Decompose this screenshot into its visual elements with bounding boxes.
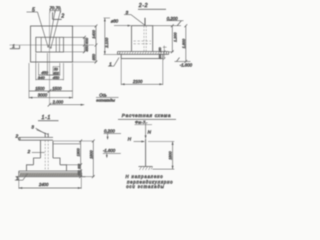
label 2 upper xyxy=(15,133,21,139)
svg-text:1-1: 1-1 xyxy=(42,115,51,121)
dim row B 340 | 450 xyxy=(36,53,64,80)
svg-text:1500: 1500 xyxy=(35,86,45,91)
svg-text:0.200: 0.200 xyxy=(104,129,115,134)
slab top lines xyxy=(19,170,82,172)
dim 2100 (2-2) xyxy=(121,59,163,86)
pedestal divider line left xyxy=(40,37,42,52)
scheme dim 1800 xyxy=(148,142,174,170)
svg-text:1800: 1800 xyxy=(169,150,173,159)
dim 2400 (1-1) xyxy=(19,178,82,190)
level 0.200 (scheme) xyxy=(104,129,121,140)
right inner dim 1.200 xyxy=(169,24,178,53)
step 1 xyxy=(34,158,61,165)
svg-text:3000: 3000 xyxy=(38,93,48,98)
scheme ground xyxy=(139,167,153,171)
svg-text:450: 450 xyxy=(85,44,89,51)
svg-text:850: 850 xyxy=(92,53,96,60)
svg-text:-1.600: -1.600 xyxy=(180,62,193,67)
label 2 lower with leader xyxy=(27,149,45,154)
svg-text:эстакады: эстакады xyxy=(96,98,115,103)
svg-text:2: 2 xyxy=(60,14,64,20)
note text H направлено... xyxy=(126,174,174,189)
svg-text:2: 2 xyxy=(15,133,19,138)
dim row A extension lines xyxy=(39,53,60,76)
svg-text:1300: 1300 xyxy=(77,148,81,156)
pedestal outline (plan inner rectangle) xyxy=(36,37,64,52)
svg-text:300: 300 xyxy=(158,54,162,59)
label 1 (2-2) xyxy=(108,58,119,67)
dim row E 2.000 to trestle axis xyxy=(48,100,85,107)
title Расчетная схема xyxy=(118,113,176,124)
svg-text:0.200: 0.200 xyxy=(167,16,178,21)
ledge plate (wide thin slab top) xyxy=(118,52,169,55)
svg-text:1500: 1500 xyxy=(52,86,62,91)
dimension 70|70 top xyxy=(48,6,61,49)
svg-text:400: 400 xyxy=(85,37,89,44)
svg-text:70: 70 xyxy=(50,6,55,11)
dim row C 1500 | 1500 xyxy=(29,63,73,98)
svg-text:450: 450 xyxy=(53,75,60,80)
svg-text:340: 340 xyxy=(38,75,45,80)
svg-text:2: 2 xyxy=(27,149,31,154)
svg-text:1.200: 1.200 xyxy=(173,32,177,42)
title 2-2 xyxy=(138,3,166,9)
right outer dim 1.800 xyxy=(182,24,187,63)
label 3 leaders (1-1) xyxy=(31,125,48,135)
trestle axis label xyxy=(96,92,119,102)
label 3 leader xyxy=(124,10,144,25)
svg-text:⌀30: ⌀30 xyxy=(111,19,119,24)
svg-text:1400: 1400 xyxy=(92,29,96,38)
anchor bolt above column top xyxy=(144,18,146,26)
svg-text:300: 300 xyxy=(77,164,81,169)
svg-text:оси эстакады: оси эстакады xyxy=(126,184,164,189)
right extension lines (1-1) xyxy=(53,141,94,177)
column outline xyxy=(132,26,153,52)
anchor bolts hidden dashed xyxy=(44,140,46,170)
section cut mark 1 (left) xyxy=(10,44,20,49)
section cut mark 2 (top) xyxy=(53,12,65,19)
svg-text:-1.600: -1.600 xyxy=(103,148,116,153)
scheme column line xyxy=(145,139,147,167)
svg-text:2400: 2400 xyxy=(38,182,49,187)
vertical centerline xyxy=(49,13,51,106)
ground line (1-1) xyxy=(16,176,86,178)
anchor plate hidden (dashed) xyxy=(134,40,152,42)
plan right outer dim chain 1400/850 xyxy=(73,25,98,64)
horizontal centerline xyxy=(10,44,95,46)
level mark 0.200 xyxy=(153,16,184,26)
left dim 2.100 xyxy=(104,18,119,55)
foundation slab outline (plan outer rectangle) xyxy=(31,26,73,62)
label 5 leader xyxy=(27,7,49,47)
svg-text:1800: 1800 xyxy=(89,149,93,158)
svg-text:2100: 2100 xyxy=(132,79,143,84)
level -1.600 (scheme) xyxy=(103,148,121,158)
anchor bolt hidden (dashed) xyxy=(143,26,145,51)
svg-text:1.800: 1.800 xyxy=(182,38,186,48)
dim row D 3000 xyxy=(29,93,73,99)
force N arrow xyxy=(144,123,152,139)
label d30 with arrow xyxy=(111,19,131,27)
anchor bolts above plate xyxy=(44,133,46,138)
svg-text:450: 450 xyxy=(77,170,81,175)
inner dim chain (1-1) xyxy=(77,140,83,179)
step 2 xyxy=(27,165,67,171)
svg-text:Расчетная схема: Расчетная схема xyxy=(122,113,171,119)
title 1-1 xyxy=(38,115,59,121)
outer dim chain 1800 (1-1) xyxy=(89,140,94,179)
svg-text:3: 3 xyxy=(31,125,34,130)
svg-text:70: 70 xyxy=(56,6,61,11)
column sides xyxy=(40,140,42,158)
svg-text:1: 1 xyxy=(12,44,15,49)
pedestal divider line right xyxy=(55,37,57,52)
slab body xyxy=(121,54,163,58)
svg-text:5: 5 xyxy=(32,7,35,13)
svg-text:2-2: 2-2 xyxy=(138,3,148,9)
svg-text:Н направлено: Н направлено xyxy=(126,174,164,179)
baseplate / traverse xyxy=(19,137,53,140)
level mark -1.600 (2-2) xyxy=(175,58,193,68)
small right-edge dims of slab (2-2) xyxy=(158,46,166,60)
svg-text:3: 3 xyxy=(126,10,129,15)
force H arrow xyxy=(128,136,145,142)
svg-text:2.100: 2.100 xyxy=(104,37,109,49)
svg-text:2.000: 2.000 xyxy=(52,100,64,105)
label 1 (1-1) xyxy=(15,174,28,181)
svg-text:150: 150 xyxy=(158,47,162,52)
plan right inner dim chain 400/450 xyxy=(64,36,89,54)
pedestal divider line right 2 xyxy=(59,37,61,52)
dim row A 450 / 50-400 xyxy=(39,67,60,76)
slab hatch band xyxy=(19,173,81,176)
svg-text:Фм-7: Фм-7 xyxy=(135,120,146,125)
